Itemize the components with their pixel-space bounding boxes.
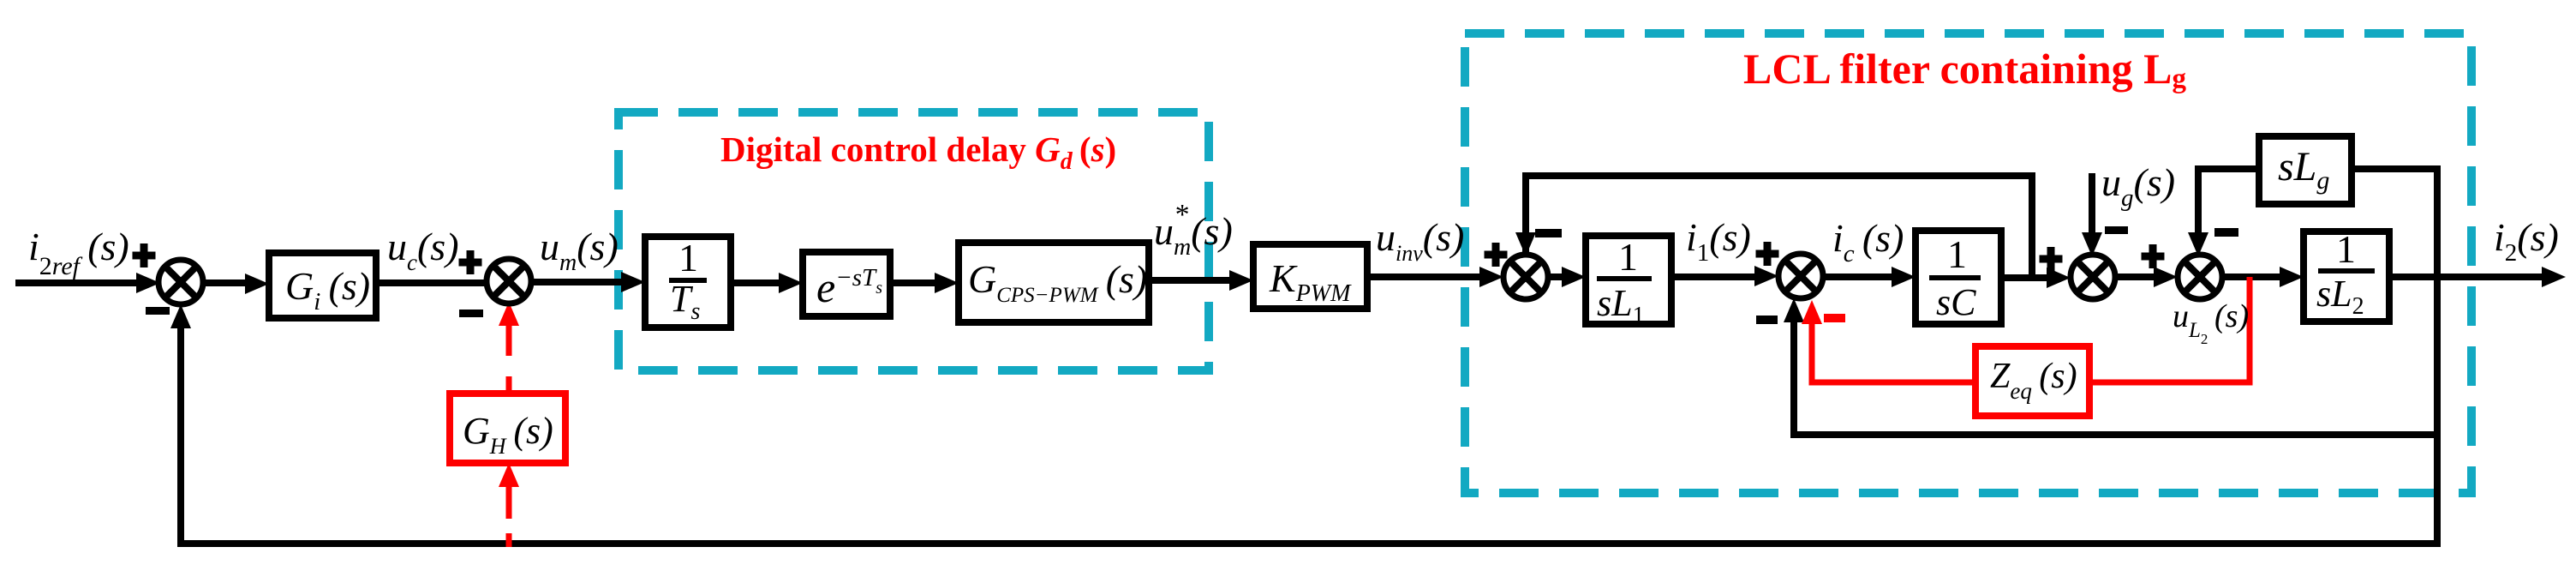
- red wire Zeq to junction4: [1812, 321, 1975, 382]
- block Gi(s): [269, 253, 376, 318]
- red dashed wire GH to junction2: [506, 309, 512, 356]
- plus sign junction2: [459, 250, 482, 274]
- wire 1/Ts to exp: [731, 279, 784, 286]
- wire capacitor-voltage feedback to junction3: [1526, 176, 2032, 279]
- block Kpwm: [1253, 244, 1367, 309]
- dashed box: LCL filter containing Lg: [1465, 33, 2471, 493]
- minus sign ug input: [2105, 226, 2128, 234]
- wire input i2ref: [15, 279, 139, 286]
- minus sign junction1: [146, 307, 170, 315]
- svg-text:1: 1: [678, 236, 698, 279]
- wire junction6 to 1/sL2: [2222, 273, 2285, 280]
- summing junction 3: [1503, 255, 1548, 299]
- svg-text:1: 1: [1618, 235, 1638, 279]
- wire 1/sL1 to junction4: [1671, 273, 1760, 280]
- plus sign junction5: [2040, 247, 2063, 271]
- wire Gi to junction2: [376, 279, 487, 286]
- svg-text:GH (s): GH (s): [463, 410, 553, 459]
- wire global feedback to junction1: [181, 325, 2437, 544]
- plus sign junction3: [1485, 243, 1508, 267]
- red dashed wire feedback line to GH: [506, 480, 512, 519]
- minus sign junction4 black: [1756, 316, 1778, 324]
- wire Gcps to Kpwm: [1149, 277, 1234, 284]
- plus sign junction6: [2142, 244, 2165, 268]
- minus sign junction2: [459, 310, 483, 317]
- svg-text:1: 1: [1947, 232, 1967, 276]
- block 1/sL2: [2304, 231, 2389, 322]
- svg-text:1: 1: [2336, 227, 2356, 271]
- svg-text:uc(s): uc(s): [387, 225, 459, 275]
- text 1/sL2 fraction bar: [2318, 268, 2375, 273]
- summing junction 4: [1778, 254, 1823, 298]
- block Gcps-pwm(s): [959, 243, 1149, 322]
- svg-text:sC: sC: [1936, 281, 1976, 323]
- wire ug input arrow: [2089, 173, 2095, 234]
- text 1/sC fraction bar: [1929, 275, 1981, 280]
- wire 1/sC to junction5: [2001, 274, 2052, 281]
- wire junction4 to 1/sC: [1823, 273, 1897, 280]
- wire junction1 to Gi: [203, 279, 250, 286]
- wire sLg output to junction6: [2198, 169, 2259, 234]
- minus sign sLg input: [2214, 228, 2238, 237]
- text 1/Ts fraction bar: [669, 278, 707, 283]
- summing junction 2: [487, 259, 531, 304]
- block 1/Ts: [645, 237, 731, 328]
- text 1/sL1 fraction bar: [1597, 276, 1652, 281]
- block Zeq(s) red: [1975, 346, 2089, 416]
- block GH(s) red: [450, 394, 565, 463]
- wire exp to Gcps: [890, 279, 940, 286]
- wire output i2: [2389, 273, 2543, 280]
- wire junction2 to 1/Ts: [531, 279, 626, 285]
- plus sign junction4: [1756, 242, 1779, 266]
- wire output node to sLg input: [2352, 169, 2437, 277]
- wire junction3 to 1/sL1: [1548, 273, 1567, 280]
- wire i2 feedback to junction4: [1794, 319, 2437, 435]
- minus sign junction3: [1535, 229, 1562, 237]
- minus sign junction4 red: [1824, 314, 1845, 322]
- block 1/sC: [1916, 231, 2001, 324]
- summing junction 5: [2071, 255, 2115, 299]
- wire junction5 to junction6: [2115, 273, 2159, 280]
- wire output node down: [2434, 277, 2441, 547]
- svg-text:Digital control delay Gd (s): Digital control delay Gd (s): [720, 129, 1116, 175]
- summing junction 1: [158, 260, 203, 304]
- block exp(-sTs): [803, 252, 890, 316]
- summing junction 6: [2178, 255, 2222, 299]
- block 1/sL1: [1586, 236, 1671, 324]
- red wire Zeq tap down from main line: [2089, 277, 2250, 382]
- plus sign junction1: [133, 243, 156, 267]
- dashed box: Digital control delay Gd(s): [619, 112, 1209, 370]
- wire Kpwm to junction3: [1367, 273, 1485, 280]
- block sLg: [2259, 136, 2352, 204]
- svg-text:LCL filter containing Lg: LCL filter containing Lg: [1743, 45, 2187, 94]
